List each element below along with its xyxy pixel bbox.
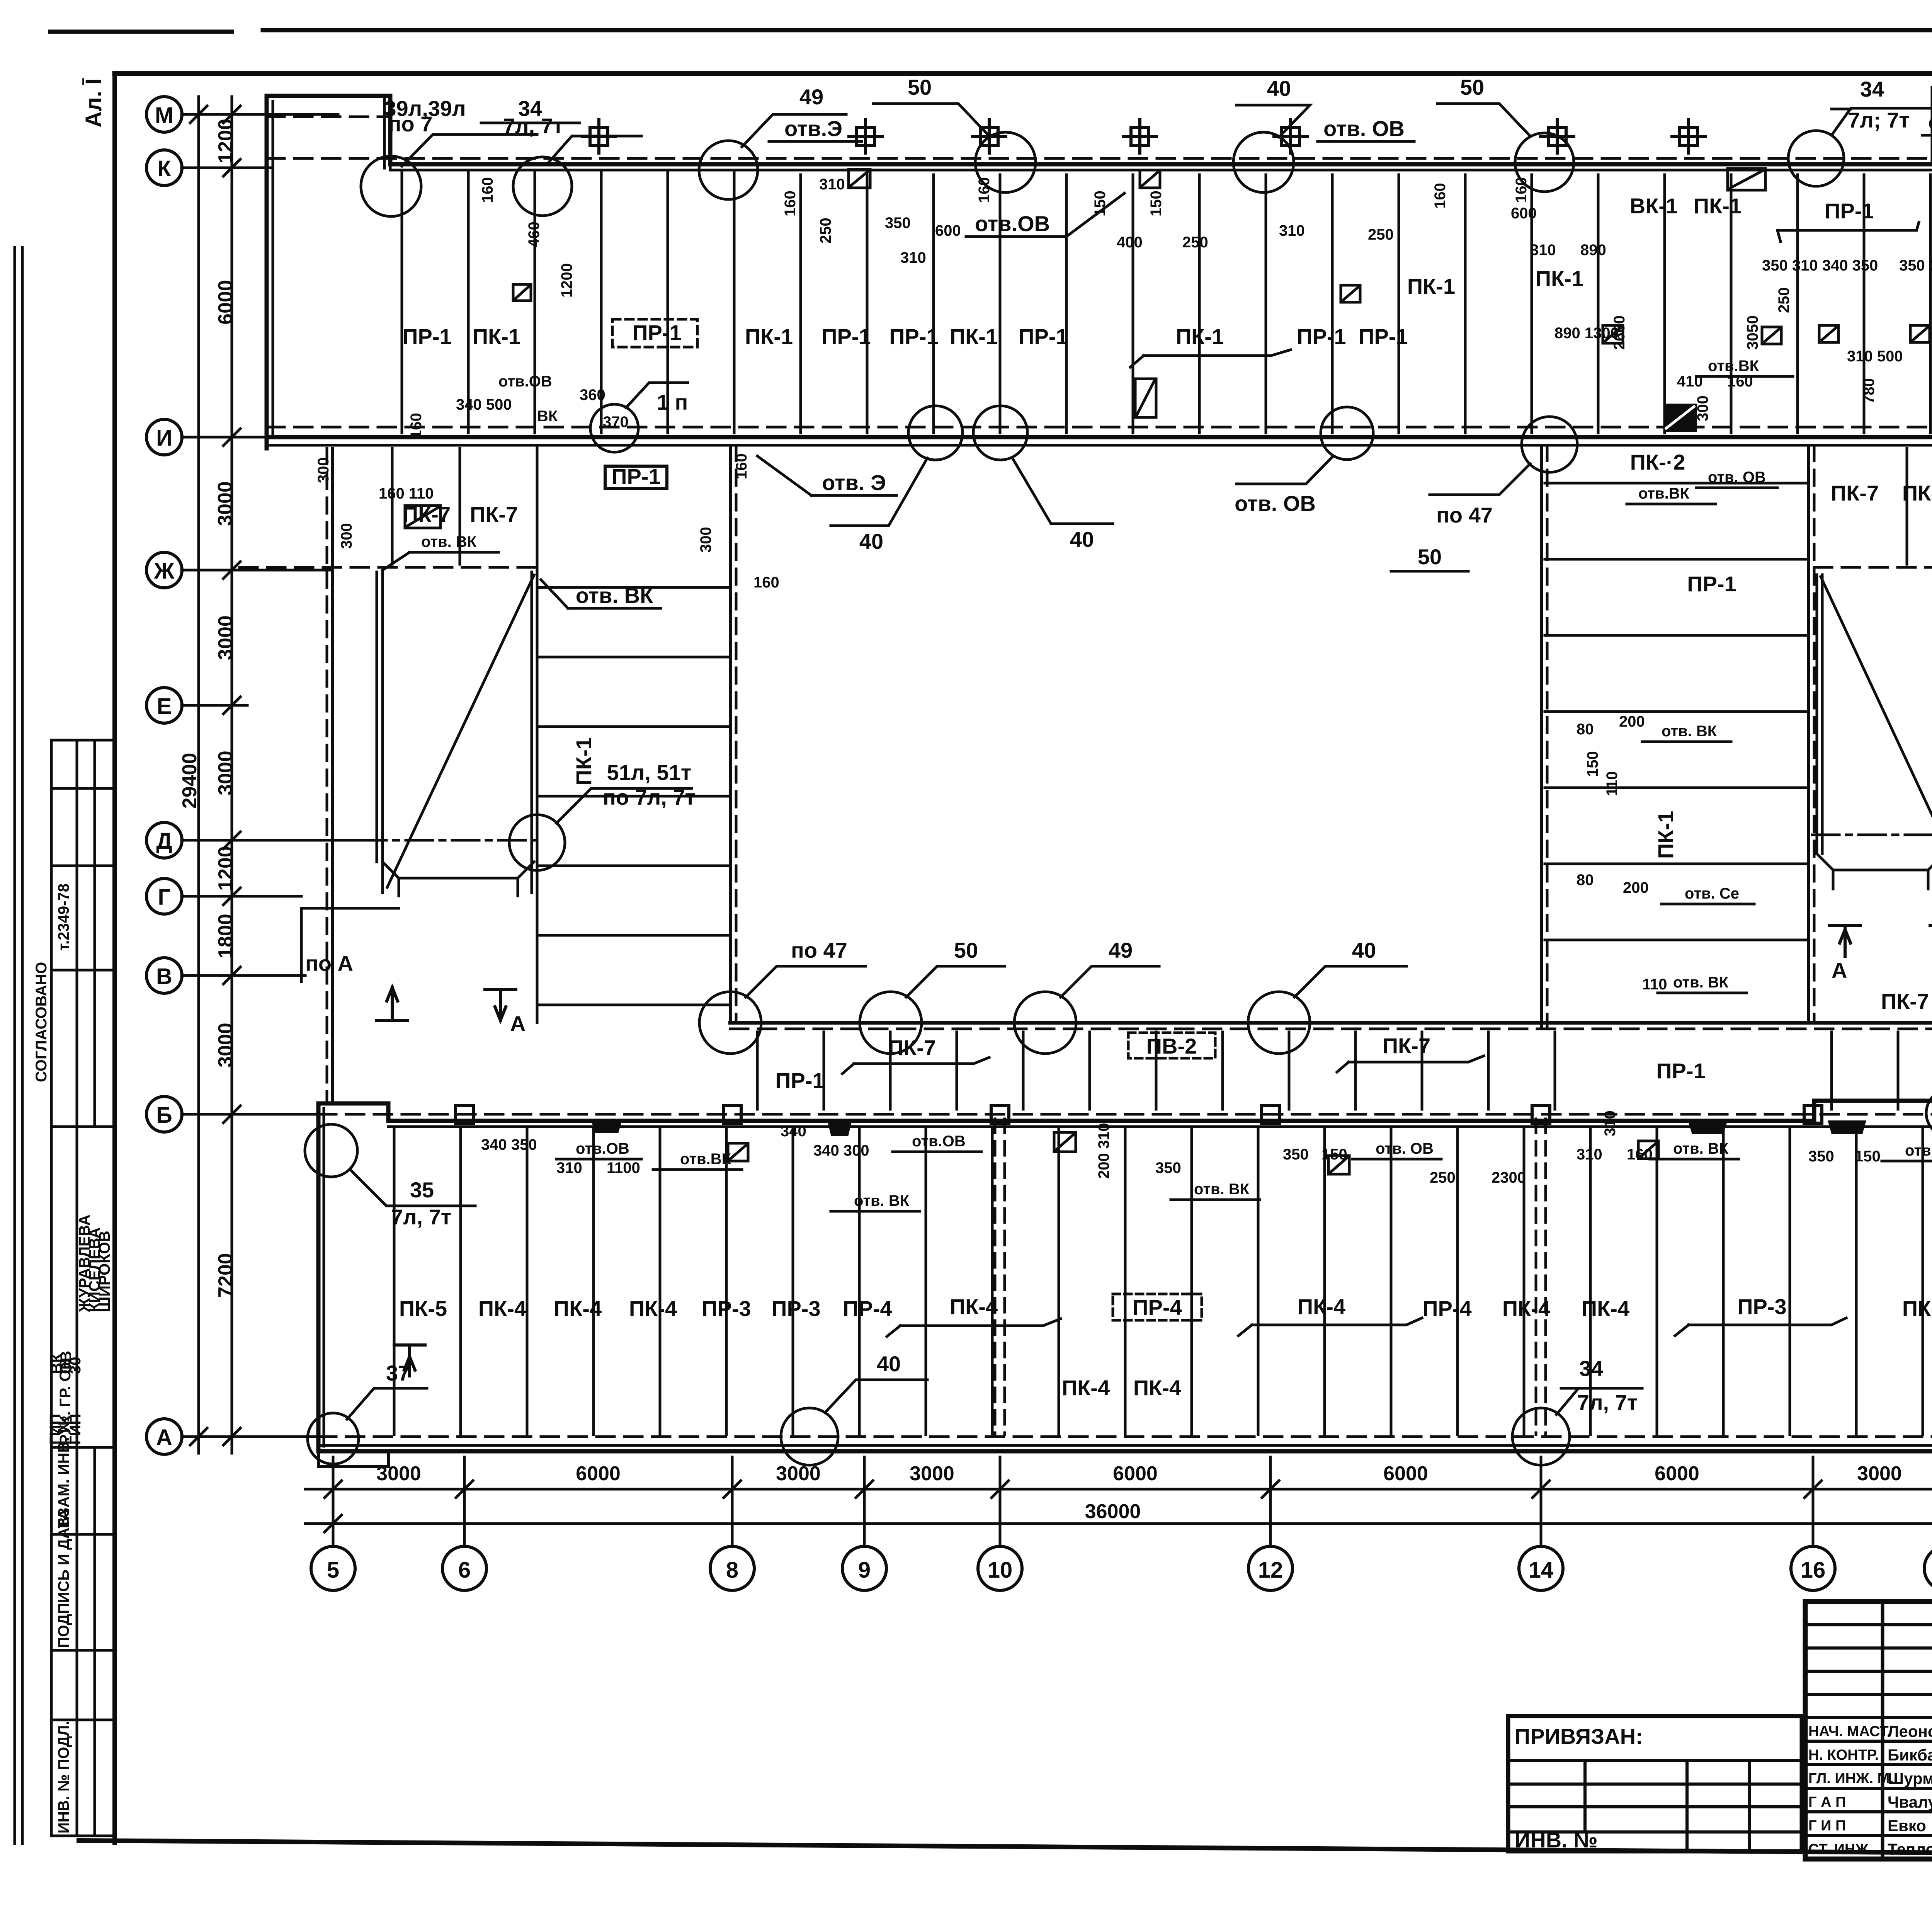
- attach table grid: [1508, 1760, 1802, 1832]
- svg-text:310 500: 310 500: [1847, 348, 1903, 365]
- middle strip В-Б slab joints: [757, 1032, 1932, 1109]
- svg-text:34: 34: [1579, 1356, 1603, 1381]
- callout leader 39л: [402, 134, 537, 166]
- left wing stair bottom chamfer: [383, 862, 534, 896]
- svg-text:7л; 7т: 7л; 7т: [1848, 108, 1910, 132]
- svg-text:по 47: по 47: [791, 938, 847, 962]
- svg-text:2300: 2300: [1492, 1169, 1526, 1186]
- column 5 wall at top block: [384, 96, 390, 168]
- callout circle 40 top: [1233, 132, 1294, 192]
- svg-text:ПК-4: ПК-4: [950, 1294, 998, 1319]
- svg-text:3000: 3000: [1857, 1462, 1902, 1485]
- axis circle К: [146, 150, 182, 186]
- bottom total dimension line: [305, 1522, 1932, 1525]
- svg-text:1100: 1100: [607, 1159, 640, 1176]
- svg-text:ИНВ. № ПОДЛ.: ИНВ. № ПОДЛ.: [55, 1721, 72, 1834]
- svg-text:ПК-7: ПК-7: [888, 1035, 936, 1060]
- row И dashed line: [267, 426, 1932, 429]
- axis row leader lines: [182, 114, 359, 1437]
- svg-text:по А: по А: [305, 951, 353, 976]
- left wing east wall: [729, 445, 732, 1023]
- svg-text:29400: 29400: [179, 753, 201, 809]
- svg-text:300: 300: [338, 523, 355, 549]
- column squares on row Б: [456, 1105, 1822, 1123]
- svg-text:ПРИВЯЗАН:: ПРИВЯЗАН:: [1515, 1724, 1643, 1748]
- svg-text:ПК-1: ПК-1: [1407, 274, 1455, 298]
- svg-text:ПК-7: ПК-7: [403, 502, 451, 526]
- svg-text:ПК-1: ПК-1: [1536, 266, 1583, 291]
- callout circle 50 top right: [1515, 133, 1574, 192]
- middle strip В-Б labels: [775, 989, 1932, 1093]
- svg-text:310: 310: [900, 249, 926, 266]
- svg-text:отв. ВК: отв. ВК: [854, 1192, 910, 1209]
- svg-text:600: 600: [935, 222, 961, 239]
- courtyard callout 49: [1014, 992, 1076, 1054]
- row И double solid line: [267, 435, 1932, 439]
- ПК-1 underline arrow top wing: [1130, 350, 1291, 367]
- svg-text:340 300: 340 300: [813, 1142, 869, 1159]
- axis circle Б: [146, 1096, 182, 1132]
- svg-text:Н. КОНТР.: Н. КОНТР.: [1808, 1747, 1879, 1763]
- svg-text:отв.ОВ: отв.ОВ: [576, 1140, 629, 1157]
- svg-text:3050: 3050: [1744, 315, 1761, 350]
- svg-text:ПР-1: ПР-1: [632, 320, 681, 345]
- column circle 5: [311, 1546, 355, 1590]
- svg-text:ГЛ. ИНЖ. М.: ГЛ. ИНЖ. М.: [1808, 1771, 1894, 1787]
- svg-text:ПР-4: ПР-4: [843, 1296, 892, 1321]
- svg-text:12: 12: [1258, 1558, 1283, 1583]
- right wing west wall col14: [1540, 445, 1543, 1028]
- svg-text:Чвалун: Чвалун: [1888, 1793, 1932, 1811]
- svg-text:350 310: 350 310: [1899, 257, 1932, 274]
- svg-text:150: 150: [1855, 1148, 1881, 1165]
- callout circle 1п: [590, 404, 638, 452]
- svg-text:250: 250: [1182, 234, 1208, 251]
- svg-text:200 310: 200 310: [1095, 1123, 1112, 1179]
- callout 34 on А: [1512, 1408, 1570, 1465]
- row Ж dashed stub left: [240, 566, 537, 569]
- bottom underline arrows: [887, 1319, 1061, 1336]
- courtyard bottom edge row В: [730, 1021, 1932, 1025]
- ПК-7 underline middle: [842, 1057, 989, 1074]
- svg-text:49: 49: [1109, 938, 1133, 962]
- vertical dimension chain line: [231, 97, 233, 1453]
- black opening marks row Б: [591, 1120, 1866, 1136]
- svg-text:160: 160: [733, 453, 750, 479]
- bottom wing inner lines: [324, 1108, 1932, 1446]
- svg-text:40: 40: [859, 529, 883, 553]
- svg-text:160: 160: [782, 191, 799, 216]
- svg-text:ПК-1: ПК-1: [1176, 324, 1224, 349]
- svg-text:6000: 6000: [576, 1462, 621, 1485]
- svg-text:14: 14: [1529, 1558, 1554, 1583]
- svg-text:1200: 1200: [214, 846, 237, 891]
- opening squares with diagonal top wing: [405, 169, 1930, 528]
- svg-text:отв. ВК: отв. ВК: [1673, 974, 1729, 991]
- svg-text:36000: 36000: [1085, 1500, 1141, 1523]
- column circle 8: [710, 1546, 754, 1590]
- ПР-1 boxed label dashed: [612, 319, 697, 347]
- svg-text:ПК-4: ПК-4: [1502, 1296, 1550, 1321]
- svg-text:ПК-7: ПК-7: [1383, 1033, 1430, 1058]
- svg-text:6000: 6000: [1383, 1462, 1428, 1485]
- row А dashed line: [318, 1435, 1932, 1438]
- svg-text:80: 80: [1577, 721, 1594, 738]
- column circle 10: [978, 1546, 1022, 1590]
- svg-text:7л, 7т: 7л, 7т: [503, 114, 563, 138]
- title block thin rows: [1805, 1625, 1932, 1835]
- svg-text:Шурмухина: Шурмухина: [1888, 1769, 1932, 1788]
- svg-text:по 7: по 7: [388, 112, 433, 136]
- column 14 double dashed wall in bottom wing: [1536, 1119, 1546, 1435]
- svg-text:340 500: 340 500: [456, 396, 512, 413]
- svg-text:отв. Се: отв. Се: [1685, 885, 1739, 902]
- svg-text:А: А: [1832, 958, 1847, 982]
- top wing panel labels: [402, 194, 1932, 596]
- svg-text:300: 300: [1694, 395, 1711, 421]
- svg-text:50: 50: [1460, 75, 1484, 99]
- svg-text:по 7л, 7т: по 7л, 7т: [603, 785, 696, 809]
- row М dashed line: [267, 111, 1932, 117]
- svg-text:40: 40: [1352, 938, 1376, 962]
- svg-text:ПК-1: ПК-1: [950, 324, 998, 349]
- section mark A arrows near courtyard: [377, 987, 408, 1020]
- svg-text:Ал. Ī: Ал. Ī: [81, 78, 106, 128]
- svg-text:350: 350: [1283, 1146, 1309, 1163]
- title block left columns: [1883, 1602, 1932, 1859]
- svg-text:отв. Э: отв. Э: [822, 470, 886, 495]
- svg-text:890: 890: [1580, 242, 1606, 259]
- svg-text:460: 460: [526, 221, 543, 247]
- svg-text:3000: 3000: [214, 481, 236, 526]
- svg-text:ПК-4: ПК-4: [1062, 1376, 1110, 1400]
- svg-text:К: К: [157, 156, 171, 181]
- svg-text:отв. ВК: отв. ВК: [576, 583, 653, 608]
- column circle 6: [442, 1546, 486, 1590]
- svg-text:80: 80: [1577, 872, 1594, 889]
- left wing stair core walls: [377, 572, 383, 893]
- callout circles 40 on И: [908, 406, 963, 460]
- column circle 16: [1791, 1546, 1835, 1590]
- row Б dashed line: [318, 1113, 1932, 1116]
- svg-text:Леонов: Леонов: [1888, 1722, 1932, 1740]
- svg-text:34: 34: [1860, 77, 1884, 101]
- callout circle по47 on И: [1522, 417, 1577, 472]
- svg-text:1800: 1800: [214, 914, 237, 958]
- left wing west wall: [326, 448, 328, 1103]
- svg-text:1 п: 1 п: [657, 390, 688, 414]
- svg-text:160: 160: [479, 177, 496, 203]
- svg-text:ПР-1: ПР-1: [1687, 572, 1736, 596]
- svg-text:300: 300: [697, 527, 714, 553]
- svg-text:6: 6: [458, 1558, 471, 1583]
- main frame left: [112, 73, 117, 1843]
- top wing inner double lines: [273, 88, 1932, 435]
- svg-text:Б: Б: [156, 1103, 172, 1128]
- svg-text:110: 110: [1642, 976, 1667, 993]
- axis circle А: [146, 1419, 182, 1454]
- svg-text:35: 35: [410, 1178, 434, 1202]
- svg-text:7л, 7т: 7л, 7т: [391, 1205, 451, 1229]
- right block ПК-7 strip И-Ж: [1814, 566, 1932, 569]
- svg-text:отв. ОВ: отв. ОВ: [1708, 469, 1766, 486]
- svg-text:ПР-1: ПР-1: [889, 324, 938, 349]
- svg-text:ПР-4: ПР-4: [1133, 1295, 1182, 1319]
- main frame top: [115, 71, 1932, 76]
- svg-text:49: 49: [799, 85, 823, 109]
- svg-text:51л, 51т: 51л, 51т: [607, 760, 692, 785]
- svg-text:ПК-1: ПК-1: [571, 737, 596, 785]
- svg-text:ПР-1: ПР-1: [1019, 324, 1068, 349]
- svg-text:М: М: [155, 103, 173, 128]
- svg-text:350: 350: [1808, 1148, 1834, 1165]
- paper top edge line: [50, 30, 1932, 32]
- right wing east wall: [1807, 445, 1810, 1023]
- courtyard callout 40: [1248, 992, 1310, 1054]
- right stair diagonal: [1821, 577, 1932, 835]
- svg-text:200: 200: [1623, 879, 1649, 896]
- left wing slab lines horizontal: [539, 587, 728, 1005]
- svg-text:ПР-3: ПР-3: [1737, 1294, 1786, 1319]
- svg-text:350: 350: [1155, 1159, 1181, 1176]
- svg-text:ПК-·2: ПК-·2: [1630, 450, 1685, 474]
- svg-text:А: А: [510, 1011, 526, 1036]
- small dim texts top band: [408, 156, 1932, 464]
- svg-text:310: 310: [556, 1159, 582, 1176]
- right wing slab lines horizontal: [1545, 483, 1807, 940]
- svg-text:ПР-1: ПР-1: [402, 324, 451, 349]
- svg-text:50: 50: [908, 75, 932, 99]
- svg-text:ПК-1: ПК-1: [1694, 194, 1742, 218]
- svg-text:250: 250: [1430, 1169, 1456, 1186]
- svg-text:340: 340: [781, 1123, 806, 1140]
- svg-text:160: 160: [753, 574, 779, 591]
- column squares on row К: [582, 120, 1705, 153]
- svg-text:ПК-5: ПК-5: [399, 1296, 447, 1321]
- column circle 9: [842, 1546, 886, 1590]
- svg-text:890 1300: 890 1300: [1554, 325, 1619, 342]
- svg-text:ПР-1: ПР-1: [1297, 324, 1346, 349]
- svg-text:350: 350: [885, 215, 911, 232]
- column circle 12: [1248, 1546, 1293, 1590]
- callout 35 on Б left: [305, 1124, 357, 1177]
- svg-text:40: 40: [1267, 76, 1291, 100]
- callout circle 39л on К: [361, 156, 421, 216]
- svg-text:600: 600: [1511, 205, 1537, 222]
- courtyard callout 50: [860, 992, 922, 1054]
- right stair core walls: [1817, 575, 1932, 854]
- ПВ-2 dashed boxed label: [1128, 1033, 1215, 1058]
- svg-text:7л, 7т: 7л, 7т: [1577, 1390, 1638, 1415]
- svg-text:50: 50: [954, 938, 978, 962]
- svg-text:ПК-7: ПК-7: [1831, 481, 1879, 505]
- name texts: [1888, 1722, 1932, 1858]
- svg-text:ПК-7: ПК-7: [470, 502, 518, 526]
- svg-text:50: 50: [1418, 545, 1442, 569]
- axis circle В: [146, 958, 182, 993]
- column circle 17: [1924, 1546, 1932, 1590]
- svg-text:ВК: ВК: [537, 408, 558, 425]
- svg-text:150: 150: [1092, 191, 1109, 216]
- svg-text:ПР-1: ПР-1: [611, 464, 660, 489]
- svg-text:ПК-4: ПК-4: [554, 1296, 602, 1321]
- svg-text:9: 9: [858, 1558, 871, 1583]
- svg-text:ПК-4: ПК-4: [1902, 1296, 1932, 1321]
- svg-text:8: 8: [726, 1558, 738, 1583]
- callout circle 34 on К: [513, 157, 572, 216]
- svg-text:310: 310: [1530, 242, 1556, 259]
- bottom wing outline: [318, 1101, 1932, 1451]
- svg-text:отв.ОВ: отв.ОВ: [1905, 1142, 1932, 1159]
- bottom column stems: [333, 1457, 1932, 1545]
- svg-text:310: 310: [1279, 222, 1305, 239]
- svg-text:150: 150: [1321, 1146, 1347, 1163]
- svg-text:отв.ВК: отв.ВК: [1638, 485, 1690, 502]
- left wing stair diagonal: [387, 575, 534, 887]
- axis circle Е: [146, 688, 182, 723]
- svg-text:3000: 3000: [214, 751, 237, 795]
- svg-text:ПР-3: ПР-3: [702, 1296, 751, 1321]
- callout 51л Д left: [509, 815, 565, 870]
- svg-text:ПОДПИСЬ И ДАТА: ПОДПИСЬ И ДАТА: [55, 1509, 72, 1648]
- svg-text:160: 160: [976, 177, 993, 203]
- svg-text:отв. ОВ: отв. ОВ: [1928, 110, 1932, 134]
- svg-text:отв.ВК: отв.ВК: [680, 1151, 731, 1168]
- svg-text:отв. ВК: отв. ВК: [1662, 723, 1717, 740]
- callout 37 on Б right: [1926, 1089, 1932, 1137]
- svg-text:Д: Д: [156, 829, 172, 854]
- svg-text:ПР-1: ПР-1: [821, 324, 871, 349]
- svg-text:отв. ОВ: отв. ОВ: [1235, 491, 1316, 516]
- svg-text:ПР-1: ПР-1: [1825, 199, 1874, 223]
- title block attach table outer: [1508, 1716, 1802, 1851]
- svg-text:И: И: [156, 426, 172, 451]
- svg-text:110: 110: [1604, 771, 1621, 796]
- paper left edge double line: [15, 247, 22, 1844]
- svg-text:отв.ОВ: отв.ОВ: [498, 373, 552, 390]
- main frame bottom: [79, 1840, 1932, 1857]
- svg-text:Ж: Ж: [154, 558, 175, 584]
- svg-text:ПР-1: ПР-1: [1359, 324, 1408, 349]
- svg-text:отв.ОВ: отв.ОВ: [975, 211, 1050, 236]
- svg-text:160: 160: [408, 413, 425, 439]
- svg-text:5: 5: [327, 1558, 339, 1583]
- svg-text:В: В: [156, 964, 172, 989]
- svg-text:150: 150: [1148, 191, 1165, 216]
- svg-text:3000: 3000: [214, 615, 237, 660]
- svg-text:360: 360: [580, 386, 605, 403]
- svg-text:200: 200: [1619, 713, 1645, 730]
- svg-text:НАЧ. МАСТ.: НАЧ. МАСТ.: [1808, 1723, 1891, 1740]
- title block outer frame: [1805, 1602, 1932, 1859]
- svg-text:160 110: 160 110: [379, 485, 434, 502]
- svg-text:ПР-1: ПР-1: [1656, 1059, 1705, 1083]
- svg-text:ПК-4: ПК-4: [629, 1296, 677, 1321]
- svg-text:ИНВ. №: ИНВ. №: [1515, 1828, 1598, 1852]
- svg-text:250: 250: [817, 218, 834, 243]
- svg-text:10: 10: [988, 1558, 1013, 1583]
- svg-text:ШИРОКОВ: ШИРОКОВ: [96, 1231, 113, 1312]
- opening squares bottom band: [728, 1132, 1658, 1174]
- svg-text:отв. ОВ: отв. ОВ: [1323, 116, 1405, 141]
- svg-text:Г И П: Г И П: [1808, 1818, 1846, 1834]
- svg-text:Г: Г: [158, 885, 171, 910]
- ПР-1 underline arrow right top: [1777, 222, 1919, 242]
- axis circle Г: [146, 878, 182, 914]
- отв.ВК labels right top: [1638, 336, 1932, 502]
- svg-text:3000: 3000: [214, 1023, 237, 1067]
- svg-text:16: 16: [1801, 1558, 1826, 1583]
- svg-text:ПК-7: ПК-7: [1881, 989, 1929, 1013]
- row А inner solid: [318, 1444, 1932, 1447]
- svg-text:СОГЛАСОВАНО: СОГЛАСОВАНО: [33, 962, 50, 1082]
- row Д axis dash-dot in stair: [359, 839, 537, 842]
- right stair bottom chamfer: [1817, 854, 1932, 889]
- callout circle 34 top right: [1788, 131, 1844, 186]
- role texts: [1808, 1723, 1894, 1857]
- callout circle отв ОВ on И: [1321, 407, 1373, 460]
- svg-text:отв.Э: отв.Э: [784, 116, 842, 141]
- svg-text:отв. ВК: отв. ВК: [1673, 1140, 1729, 1157]
- courtyard callout по47: [699, 992, 761, 1054]
- svg-text:Г А П: Г А П: [1808, 1794, 1846, 1810]
- svg-text:ПК-1: ПК-1: [745, 324, 793, 349]
- svg-text:ПР-3: ПР-3: [771, 1296, 820, 1321]
- left margin stamp table upper: [51, 740, 115, 1836]
- svg-text:ПР-4: ПР-4: [1422, 1296, 1471, 1321]
- bottom dimension chain line: [305, 1488, 1932, 1491]
- svg-text:6000: 6000: [1655, 1462, 1699, 1485]
- svg-text:2660: 2660: [1611, 315, 1628, 350]
- small dims right wing: [1577, 713, 1739, 993]
- svg-text:отв. ОВ: отв. ОВ: [1376, 1140, 1434, 1157]
- svg-text:300: 300: [315, 457, 332, 483]
- svg-text:ПК-7: ПК-7: [1902, 481, 1932, 505]
- svg-text:Бикбаева: Бикбаева: [1888, 1746, 1932, 1764]
- svg-text:400: 400: [1117, 234, 1143, 251]
- svg-text:СТ. ИНЖ.: СТ. ИНЖ.: [1808, 1841, 1872, 1857]
- svg-text:250: 250: [1776, 287, 1793, 313]
- svg-text:ПК-4: ПК-4: [1133, 1376, 1181, 1400]
- svg-text:160: 160: [1432, 183, 1449, 209]
- svg-text:ПК-4: ПК-4: [1582, 1296, 1629, 1321]
- svg-text:310: 310: [1577, 1146, 1602, 1163]
- svg-text:1200: 1200: [214, 119, 237, 163]
- callout circle 50 top: [975, 132, 1036, 192]
- svg-text:отв. ВК: отв. ВК: [1194, 1181, 1250, 1198]
- axis circle М: [146, 97, 182, 132]
- svg-text:отв.ВК: отв.ВК: [1708, 358, 1759, 375]
- svg-text:Евко: Евко: [1888, 1817, 1926, 1835]
- callout 37 bottom left: [308, 1413, 359, 1464]
- bottom wing panel labels row1: [399, 1294, 1932, 1400]
- svg-text:А: А: [156, 1425, 172, 1450]
- svg-text:370: 370: [603, 414, 629, 431]
- bottom wing slab joint lines: [394, 1127, 1932, 1435]
- svg-text:150: 150: [1584, 751, 1601, 777]
- svg-text:160: 160: [1513, 177, 1530, 203]
- svg-text:ПК-1: ПК-1: [473, 324, 520, 349]
- column 10 double dashed wall in bottom wing: [995, 1119, 1005, 1435]
- top wing slab joint lines: [402, 100, 1932, 433]
- bottom dim ticks: [325, 1481, 1932, 1532]
- ПР-1 boxed label solid: [605, 466, 667, 489]
- svg-text:340 350: 340 350: [481, 1136, 537, 1153]
- axis circle И: [146, 419, 182, 455]
- dimension ticks on vertical chains: [190, 106, 240, 1445]
- small dims bottom band: [481, 1110, 1932, 1209]
- svg-text:Теплова: Теплова: [1888, 1840, 1932, 1858]
